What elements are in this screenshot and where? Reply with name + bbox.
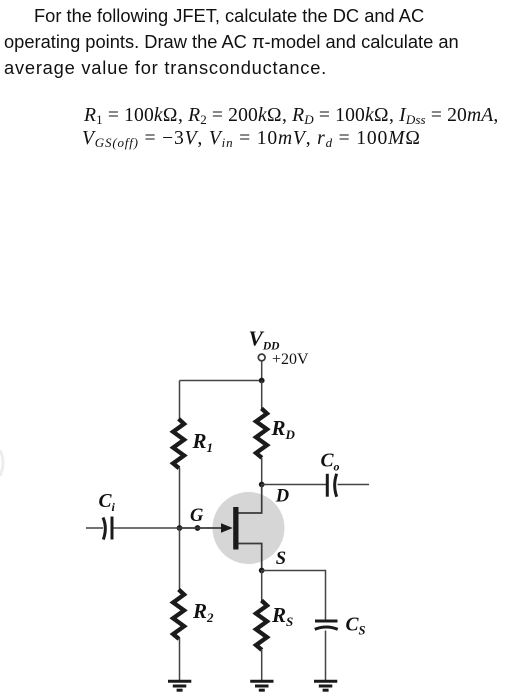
node S xyxy=(259,568,265,574)
label RS xyxy=(271,603,293,629)
wire R2 to ground xyxy=(179,638,181,680)
svg-text:Co: Co xyxy=(321,451,340,474)
wire Co to output xyxy=(338,484,370,486)
svg-text:Ci: Ci xyxy=(99,491,116,514)
svg-text:D: D xyxy=(275,487,289,507)
transistor Q1 source lead xyxy=(239,544,262,571)
wire RS to ground xyxy=(261,649,263,680)
transistor Q1 gate bar xyxy=(233,507,238,550)
label +20V xyxy=(272,351,309,368)
wire Ci to gate junction xyxy=(114,527,180,529)
label R2 xyxy=(192,599,214,625)
svg-text:VDD: VDD xyxy=(249,327,281,353)
ground for CS xyxy=(314,681,337,690)
wire left rail upper xyxy=(179,381,181,420)
label Ci xyxy=(99,491,116,514)
capacitor CS xyxy=(315,621,338,629)
node VDD junction xyxy=(259,378,265,384)
label RD xyxy=(271,416,296,442)
node gate junction xyxy=(177,525,183,531)
resistor R2 xyxy=(173,590,184,639)
capacitor Co xyxy=(327,474,336,497)
svg-text:RD: RD xyxy=(271,416,296,442)
label CS xyxy=(346,615,366,638)
wire drain node to Co xyxy=(262,484,326,486)
wire gate with arrow xyxy=(180,523,233,533)
svg-text:R1: R1 xyxy=(192,429,214,455)
svg-text:CS: CS xyxy=(346,615,366,638)
wire left rail lower xyxy=(179,528,181,590)
capacitor Ci xyxy=(103,517,112,540)
label D xyxy=(275,487,289,507)
label S xyxy=(276,549,286,569)
resistor RS xyxy=(256,601,267,650)
svg-text:+20V: +20V xyxy=(272,351,309,368)
svg-text:R2: R2 xyxy=(192,599,214,625)
power terminal VDD circle xyxy=(258,354,265,361)
wire VDD terminal to rail xyxy=(261,361,263,380)
label R1 xyxy=(192,429,214,455)
node D xyxy=(259,482,265,488)
label G xyxy=(190,506,204,526)
label VDD xyxy=(249,327,281,353)
wire S to RS xyxy=(261,571,263,602)
wire S to CS branch xyxy=(262,571,326,621)
label Co xyxy=(321,451,340,474)
wire VDD rail to RD xyxy=(261,381,263,410)
wire RD to drain node xyxy=(261,458,263,485)
ground for RS xyxy=(250,681,273,690)
wire input stub xyxy=(86,527,103,529)
wire CS to ground xyxy=(325,631,327,681)
svg-text:S: S xyxy=(276,549,286,569)
svg-text:G: G xyxy=(190,506,204,526)
transistor Q1 JFET body circle xyxy=(213,492,285,564)
node G dot xyxy=(195,525,201,531)
wire left rail middle xyxy=(179,468,181,529)
resistor RD xyxy=(256,408,267,457)
svg-text:RS: RS xyxy=(271,603,293,629)
wire top rail xyxy=(180,380,262,382)
transistor Q1 drain lead xyxy=(239,485,262,514)
ground for R2 xyxy=(168,681,191,690)
resistor R1 xyxy=(173,419,184,468)
scan artifact left edge xyxy=(0,450,3,476)
